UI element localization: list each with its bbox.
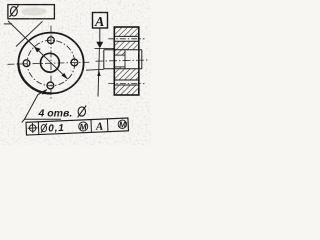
section lower hole centerline: [108, 82, 144, 84]
datum filled triangle: [96, 42, 103, 48]
outer circle of flange: [18, 33, 83, 94]
front view horizontal centerline: [8, 62, 91, 64]
hub bottom edge extension line: [86, 68, 104, 71]
leader arrowhead: [41, 89, 47, 95]
outer circle SW emphasis: [18, 63, 51, 93]
vertical dimension line left of section: [98, 49, 99, 97]
dim arrowhead lower-right: [62, 73, 68, 79]
bore step edge: [124, 50, 126, 69]
datum A box: [93, 13, 108, 29]
center bore circle: [41, 53, 60, 72]
leader for 4 holes note: [22, 90, 47, 123]
hub left protrusion: [103, 50, 105, 69]
section main axis centerline: [96, 60, 149, 61]
scan grain overlay: [0, 0, 151, 145]
up arrowhead on vertical dimension: [97, 70, 101, 76]
position tolerance symbol: [28, 123, 38, 133]
section view hatched bands: [114, 27, 139, 95]
upper hole edges in section: [114, 35, 139, 37]
M in circle (datum modifier): [118, 119, 127, 129]
hub right protrusion: [141, 50, 143, 69]
dim arrowhead upper-left: [34, 47, 41, 53]
bolt circle (dash-dot): [27, 40, 75, 86]
tolerance value diameter sign: [41, 123, 48, 132]
datum stem: [99, 28, 101, 42]
45deg bolt-circle diameter dimension line: [8, 21, 68, 79]
section outline: [114, 27, 139, 95]
note diameter symbol: [78, 106, 87, 118]
datum base line: [95, 47, 115, 49]
front view vertical centerline: [50, 26, 52, 100]
auxiliary diagonal line: [16, 21, 43, 46]
lower hole edges in section: [114, 79, 139, 81]
basic dimension box top-left: [8, 5, 55, 19]
faint smudge in box: [21, 8, 47, 16]
hole left: [23, 60, 30, 67]
hole right: [71, 59, 78, 66]
hole bottom: [47, 82, 54, 89]
bore edges in section: [104, 49, 139, 51]
leader shelf: [24, 118, 61, 120]
counterbore shoulder hatch upper: [114, 50, 125, 55]
counterbore shoulder hatch lower: [114, 67, 125, 69]
M in circle (tolerance modifier): [79, 121, 88, 131]
diameter symbol in box: [10, 5, 19, 17]
short tick below box: [4, 23, 12, 25]
section upper hole centerline: [108, 38, 144, 40]
feature control frame: [26, 118, 128, 136]
hole top: [48, 37, 55, 44]
